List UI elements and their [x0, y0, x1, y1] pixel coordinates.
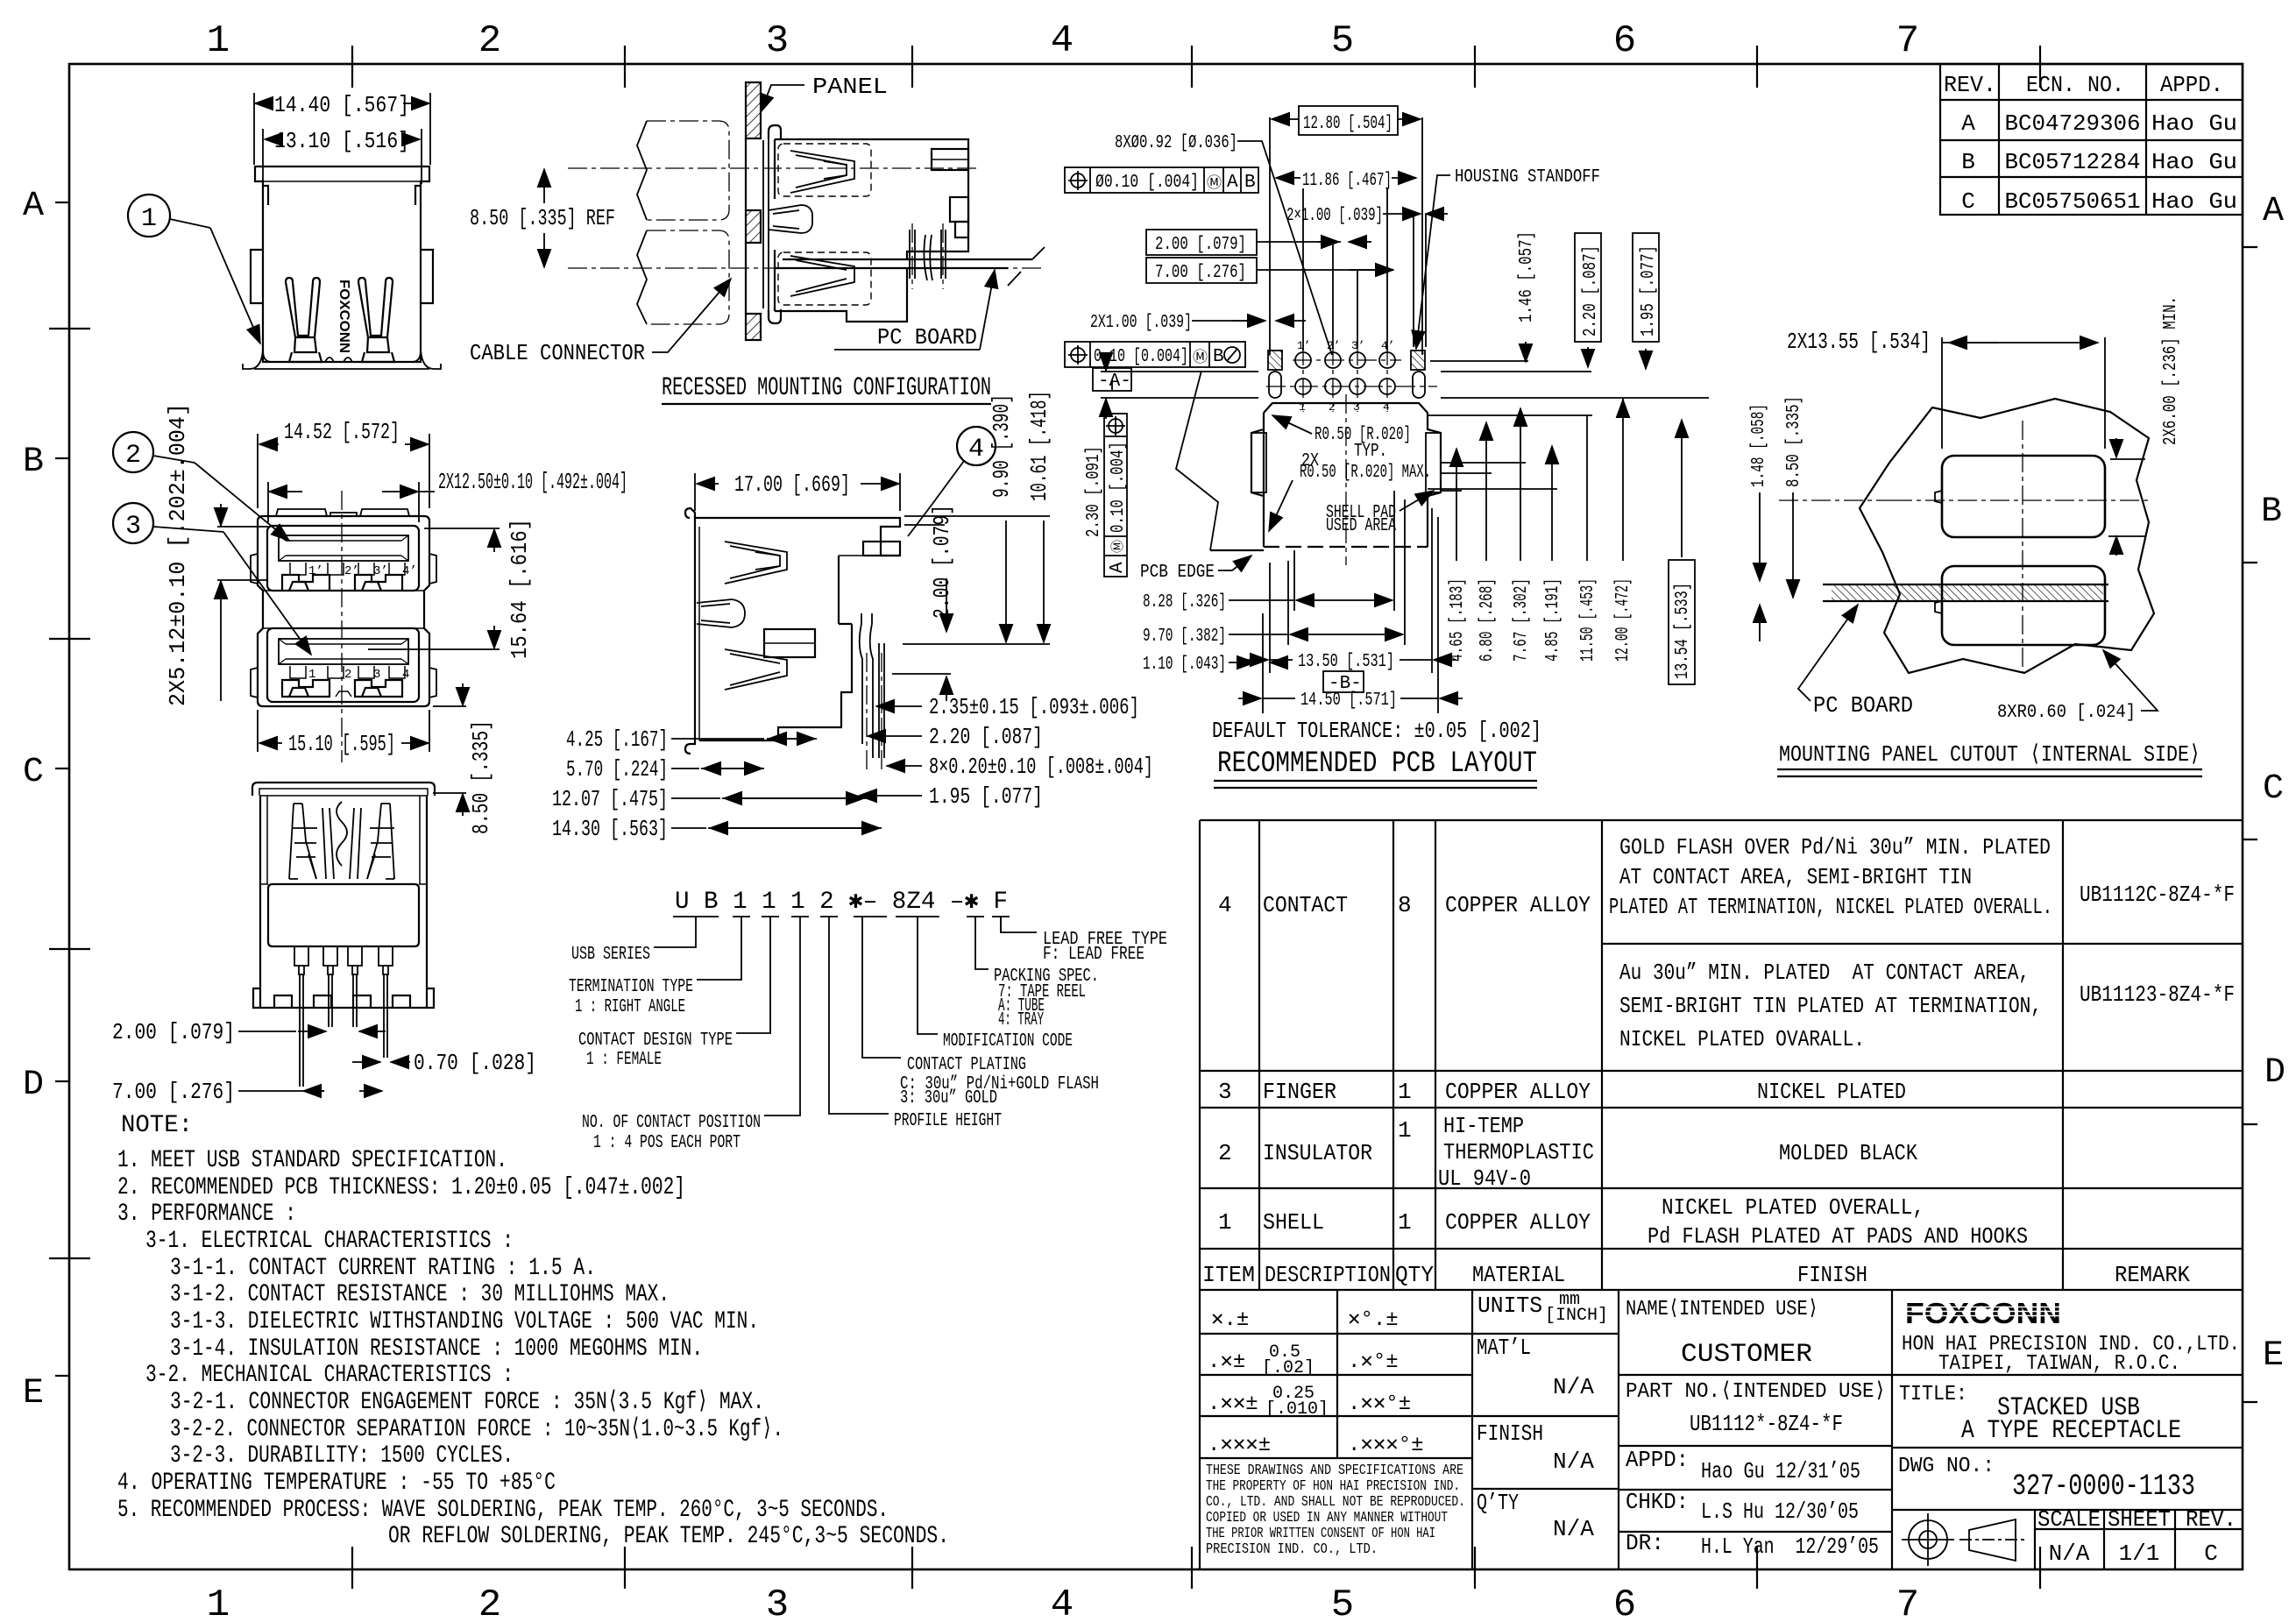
- svg-text:NICKEL PLATED OVARALL.: NICKEL PLATED OVARALL.: [1619, 1026, 1865, 1052]
- hatched square pads: [1268, 351, 1282, 370]
- svg-text:4. OPERATING TEMPERATURE : -55: 4. OPERATING TEMPERATURE : -55 TO +85°C: [117, 1470, 556, 1497]
- svg-text:3: 3: [766, 1583, 789, 1622]
- svg-text:R0.50 [R.020] MAX.: R0.50 [R.020] MAX.: [1300, 463, 1431, 483]
- dimension 12.80 [.504] boxed: [1299, 106, 1398, 135]
- svg-text:CONTACT DESIGN TYPE: CONTACT DESIGN TYPE: [578, 1031, 733, 1051]
- pin bumps row: [294, 946, 393, 974]
- svg-text:TITLE:: TITLE:: [1899, 1383, 1967, 1406]
- svg-text:N/A: N/A: [1553, 1516, 1594, 1542]
- svg-text:TERMINATION TYPE: TERMINATION TYPE: [569, 977, 693, 997]
- svg-text:13.50 [.531]: 13.50 [.531]: [1298, 652, 1394, 672]
- feature control frame 2: [1065, 342, 1245, 367]
- labels R0.50 TYP inside: [1300, 425, 1431, 536]
- svg-text:FOXCONN: FOXCONN: [1905, 1297, 2061, 1329]
- svg-text:D: D: [2264, 1053, 2285, 1093]
- svg-text:3: 30u” GOLD: 3: 30u” GOLD: [900, 1088, 997, 1108]
- svg-text:ECN. NO.: ECN. NO.: [2026, 72, 2124, 98]
- view 1: USB receptacle rear view top-left: [128, 92, 441, 369]
- dimension 2X1.00 [.039] left: [1090, 313, 1306, 333]
- svg-text:4: TRAY: 4: TRAY: [998, 1010, 1044, 1031]
- svg-text:1.10 [.043]: 1.10 [.043]: [1143, 655, 1226, 675]
- svg-text:11.50 [.453]: 11.50 [.453]: [1578, 578, 1598, 662]
- centerlines cutout: [1893, 421, 2149, 673]
- side hooks lower: [251, 668, 436, 698]
- dimension 9.90 [.390] vertical: [989, 394, 1015, 642]
- side view 17.00: [552, 391, 1153, 842]
- svg-text:Pd FLASH PLATED AT PADS AND HO: Pd FLASH PLATED AT PADS AND HOOKS: [1648, 1223, 2028, 1250]
- svg-text:3-1-1. CONTACT CURRENT RATING: 3-1-1. CONTACT CURRENT RATING : 1.5 A.: [170, 1255, 596, 1282]
- view 1 spring contact right: [358, 278, 394, 362]
- svg-text:327-0000-1133: 327-0000-1133: [2012, 1470, 2195, 1504]
- centerlines pcb layout: [1345, 394, 1347, 565]
- svg-text:5.70 [.224]: 5.70 [.224]: [566, 756, 668, 783]
- callout 1 balloon: [128, 195, 260, 344]
- svg-text:5: 5: [1331, 19, 1354, 63]
- svg-text:B: B: [1213, 347, 1224, 367]
- svg-text:2X13.55 [.534]: 2X13.55 [.534]: [1787, 329, 1931, 355]
- svg-text:MOUNTING PANEL CUTOUT ⟨INTERNA: MOUNTING PANEL CUTOUT ⟨INTERNAL SIDE⟩: [1779, 741, 2200, 768]
- stadium slot pads: [1269, 372, 1281, 398]
- svg-text:INSULATOR: INSULATOR: [1263, 1140, 1372, 1166]
- svg-text:C: C: [2204, 1541, 2218, 1567]
- svg-text:Hao Gu 12/31’05: Hao Gu 12/31’05: [1701, 1458, 1860, 1484]
- pin labels upper: [308, 564, 417, 578]
- svg-text:AT CONTACT AREA, SEMI-BRIGHT T: AT CONTACT AREA, SEMI-BRIGHT TIN: [1619, 864, 1972, 890]
- svg-text:FINISH: FINISH: [1477, 1420, 1543, 1447]
- svg-text:REV.: REV.: [2186, 1506, 2236, 1533]
- svg-text:8×0.20±0.10 [.008±.004]: 8×0.20±0.10 [.008±.004]: [929, 754, 1153, 780]
- svg-text:B: B: [1244, 173, 1256, 193]
- svg-text:MAT’L: MAT’L: [1477, 1335, 1531, 1361]
- svg-text:A: A: [23, 187, 44, 226]
- view 1 body outline: [243, 166, 441, 369]
- terminal pins: [910, 223, 946, 289]
- FOXCONN logo: [1905, 1297, 2061, 1329]
- dimension 0.70 [.028]: [352, 1050, 536, 1076]
- dimension 9.70 [.382]: [1143, 499, 1405, 647]
- callout 3 balloon: [113, 503, 311, 655]
- inner block: [764, 629, 815, 657]
- dimension 14.40 [.567]: [254, 92, 430, 165]
- svg-text:1: 1: [141, 204, 157, 234]
- svg-text:1 : 4 POS EACH PORT: 1 : 4 POS EACH PORT: [593, 1133, 741, 1153]
- svg-text:APPD.: APPD.: [2160, 72, 2223, 98]
- svg-text:C: C: [1961, 188, 1975, 215]
- svg-text:12.07 [.475]: 12.07 [.475]: [552, 786, 668, 812]
- svg-text:1 : FEMALE: 1 : FEMALE: [586, 1050, 662, 1070]
- svg-text:2: 2: [478, 19, 501, 63]
- recommended PCB layout view: [1065, 106, 1709, 788]
- svg-text:B: B: [2261, 492, 2282, 532]
- dimension 2X 13.55 [.534]: [1787, 329, 2105, 449]
- svg-text:1.95 [.077]: 1.95 [.077]: [1639, 245, 1659, 336]
- svg-text:Ⓜ: Ⓜ: [1207, 174, 1222, 193]
- svg-text:Hao Gu: Hao Gu: [2151, 188, 2237, 215]
- dimension 4.25 [.167]: [566, 726, 817, 753]
- pad labels 1'-4': [1297, 339, 1395, 352]
- svg-text:3-2-1. CONNECTOR ENGAGEMENT FO: 3-2-1. CONNECTOR ENGAGEMENT FORCE : 35N⟨…: [170, 1389, 764, 1416]
- vertical centerline front view: [341, 491, 343, 762]
- svg-text:THESE DRAWINGS AND SPECIFICATI: THESE DRAWINGS AND SPECIFICATIONS ARE: [1206, 1462, 1463, 1478]
- svg-text:7: 7: [1896, 19, 1919, 63]
- svg-text:B: B: [23, 443, 44, 482]
- svg-text:2: 2: [478, 1583, 501, 1622]
- zone numbers top: [207, 19, 1919, 63]
- svg-text:2.00 [.079]: 2.00 [.079]: [929, 505, 955, 619]
- REV table top-right: [1940, 64, 2243, 215]
- svg-text:2X5.12±0.10 [.202±.004]: 2X5.12±0.10 [.202±.004]: [165, 403, 191, 706]
- svg-text:14.50 [.571]: 14.50 [.571]: [1300, 691, 1397, 711]
- mid band: [260, 884, 427, 946]
- svg-text:BC05712284: BC05712284: [2005, 149, 2141, 175]
- svg-text:9.70 [.382]: 9.70 [.382]: [1143, 627, 1226, 647]
- zone ticks right: [2243, 247, 2257, 1402]
- svg-text:.✕°±: .✕°±: [1348, 1350, 1399, 1374]
- reference lines right of side view: [903, 504, 1050, 644]
- svg-text:PLATED AT TERMINATION, NICKEL: PLATED AT TERMINATION, NICKEL PLATED OVE…: [1609, 894, 2052, 920]
- svg-text:2.35±0.15 [.093±.006]: 2.35±0.15 [.093±.006]: [929, 694, 1139, 720]
- svg-text:D: D: [23, 1066, 44, 1105]
- svg-text:B: B: [1961, 149, 1975, 175]
- svg-text:Au 30u” MIN. PLATED AT CONTAC: Au 30u” MIN. PLATED AT CONTACT AREA,: [1619, 960, 2030, 986]
- svg-text:L.S Hu 12/30’05: L.S Hu 12/30’05: [1701, 1498, 1859, 1525]
- svg-text:8.50 [.335]: 8.50 [.335]: [1784, 396, 1804, 487]
- svg-text:8.50 [.335]: 8.50 [.335]: [468, 720, 494, 834]
- dimension 2X12.50: [268, 469, 627, 522]
- svg-text:8: 8: [1398, 892, 1412, 918]
- svg-text:U B 1 1 1 2 ✱– 8Z4 –✱ F: U B 1 1 1 2 ✱– 8Z4 –✱ F: [675, 889, 1008, 916]
- right vertical dims 1.46 2.20 1.95: [1517, 231, 1537, 362]
- svg-text:3. PERFORMANCE :: 3. PERFORMANCE :: [117, 1201, 296, 1228]
- pins side view: [860, 613, 884, 771]
- svg-text:3-2-2. CONNECTOR SEPARATION FO: 3-2-2. CONNECTOR SEPARATION FORCE : 10~3…: [170, 1416, 783, 1443]
- cable connector break line lower: [637, 230, 647, 324]
- svg-text:UB1112C-8Z4-*F: UB1112C-8Z4-*F: [2080, 882, 2235, 908]
- dimension 2.20: [868, 724, 1043, 750]
- upper port opening: [267, 526, 419, 591]
- svg-text:2’: 2’: [344, 564, 359, 578]
- svg-text:2X1.00 [.039]: 2X1.00 [.039]: [1090, 313, 1192, 333]
- dimension 2X6.00 [.236] MIN vertical: [2108, 296, 2181, 556]
- svg-text:6: 6: [1613, 19, 1636, 63]
- svg-text:3: 3: [125, 512, 141, 542]
- dimension 2.00 [.079] boxed: [1146, 230, 1371, 255]
- callout 4 balloon: [932, 427, 996, 504]
- svg-text:PANEL: PANEL: [812, 74, 888, 100]
- svg-text:PART NO.⟨INTENDED USE⟩: PART NO.⟨INTENDED USE⟩: [1626, 1380, 1886, 1404]
- svg-text:4: 4: [1218, 892, 1232, 918]
- svg-text:2.20 [.087]: 2.20 [.087]: [1581, 245, 1601, 336]
- svg-text:6.80 [.268]: 6.80 [.268]: [1478, 578, 1498, 662]
- pcb edge cut line: [1176, 371, 1264, 550]
- dimension 8x0.20: [887, 754, 1153, 780]
- PC board lines: [775, 247, 1045, 286]
- zone letters right: [2261, 192, 2285, 1376]
- svg-text:2: 2: [344, 668, 351, 682]
- svg-text:SCALE: SCALE: [2037, 1506, 2101, 1533]
- svg-text:4: 4: [1051, 19, 1074, 63]
- svg-text:[.02]: [.02]: [1262, 1358, 1315, 1378]
- dimension 8.28 [.326]: [1143, 491, 1394, 613]
- svg-text:0.70 [.028]: 0.70 [.028]: [414, 1050, 536, 1076]
- svg-text:1.95 [.077]: 1.95 [.077]: [929, 783, 1043, 810]
- svg-text:10.61 [.418]: 10.61 [.418]: [1026, 391, 1052, 501]
- svg-text:GOLD FLASH OVER Pd/Ni 30u” MIN: GOLD FLASH OVER Pd/Ni 30u” MIN. PLATED: [1619, 834, 2051, 861]
- svg-text:SEMI-BRIGHT TIN PLATED AT TERM: SEMI-BRIGHT TIN PLATED AT TERMINATION,: [1619, 993, 2042, 1019]
- R0.50 leader lines: [1269, 415, 1434, 531]
- svg-text:8.28 [.326]: 8.28 [.326]: [1143, 592, 1226, 613]
- dimension 12.07 [.475]: [552, 786, 866, 812]
- svg-text:1’: 1’: [308, 564, 323, 578]
- feature control frame 1: [1065, 167, 1258, 193]
- svg-text:2X12.50±0.10 [.492±.004]: 2X12.50±0.10 [.492±.004]: [438, 469, 627, 495]
- lower port opening: [267, 628, 419, 702]
- svg-text:9.90 [.390]: 9.90 [.390]: [989, 394, 1015, 498]
- svg-text:COPPER ALLOY: COPPER ALLOY: [1445, 1079, 1591, 1105]
- svg-text:4: 4: [1051, 1583, 1074, 1622]
- dimension 13.10 [.516]: [263, 128, 422, 184]
- middle latch side: [697, 599, 745, 627]
- side hooks upper: [251, 554, 436, 584]
- svg-text:NOTE:: NOTE:: [121, 1112, 193, 1139]
- svg-text:BC05750651: BC05750651: [2005, 188, 2141, 215]
- svg-text:COPPER ALLOY: COPPER ALLOY: [1445, 892, 1591, 918]
- zone numbers bottom: [207, 1583, 1919, 1622]
- side view outline: [685, 508, 900, 754]
- connector outline on pcb: [1251, 403, 1441, 547]
- svg-text:.✕✕°±: .✕✕°±: [1348, 1392, 1411, 1416]
- svg-text:4: 4: [968, 435, 984, 464]
- svg-text:3-2. MECHANICAL CHARACTERISTIC: 3-2. MECHANICAL CHARACTERISTICS :: [145, 1362, 514, 1389]
- cable connector dash-dot outline lower: [647, 230, 729, 324]
- svg-text:12.00 [.472]: 12.00 [.472]: [1613, 578, 1633, 662]
- interior A contacts: [289, 804, 394, 879]
- centerline upper port: [568, 167, 978, 169]
- legend callout lines: [654, 917, 1037, 1116]
- bottom-left rear/bottom view: [112, 783, 536, 1105]
- upper port dashed outline: [778, 144, 871, 196]
- svg-text:TAIPEI, TAIWAN, R.O.C.: TAIPEI, TAIWAN, R.O.C.: [1938, 1352, 2180, 1376]
- svg-text:2.20 [.087]: 2.20 [.087]: [929, 724, 1043, 750]
- svg-text:TYP.: TYP.: [1354, 442, 1387, 462]
- callout 2 balloon: [113, 432, 289, 541]
- svg-text:-A-: -A-: [1098, 372, 1131, 392]
- svg-text:Q’TY: Q’TY: [1477, 1490, 1519, 1516]
- svg-text:CUSTOMER: CUSTOMER: [1681, 1340, 1812, 1370]
- dimension 14.50 [.571]: [1238, 517, 1463, 713]
- bottom bumps between forks: [325, 358, 352, 362]
- svg-text:13.10 [.516]: 13.10 [.516]: [274, 128, 409, 154]
- right side tab: [421, 250, 433, 303]
- svg-text:USED AREA: USED AREA: [1326, 516, 1396, 536]
- svg-text:[.010]: [.010]: [1265, 1399, 1329, 1420]
- svg-text:COPPER ALLOY: COPPER ALLOY: [1445, 1209, 1591, 1236]
- row 1 pad circles: [1295, 352, 1311, 368]
- svg-text:CONTACT: CONTACT: [1263, 892, 1348, 918]
- svg-text:1: 1: [1398, 1079, 1412, 1105]
- svg-text:FINISH: FINISH: [1797, 1262, 1867, 1288]
- label 8XR0.60: [1997, 650, 2158, 723]
- pc board hatched strip: [1823, 584, 2108, 601]
- view 1 spring contact left: [286, 278, 322, 362]
- svg-text:3-2-3. DURABILITY: 1500 CYCLES: 3-2-3. DURABILITY: 1500 CYCLES.: [170, 1442, 514, 1470]
- svg-text:✕°.±: ✕°.±: [1348, 1308, 1399, 1332]
- svg-text:Ø0.10 [.004]: Ø0.10 [.004]: [1095, 173, 1199, 193]
- svg-text:4.65 [.183]: 4.65 [.183]: [1448, 578, 1468, 662]
- top edge bumps: [276, 509, 409, 516]
- svg-text:4.25 [.167]: 4.25 [.167]: [566, 726, 668, 753]
- svg-text:0.10 [0.004]: 0.10 [0.004]: [1094, 347, 1188, 367]
- part number legend UB1112*-8Z4-*F: [569, 889, 1167, 1153]
- dimension 8.50 [.335] vertical: [1779, 396, 1893, 598]
- cable connector dash-dot outline upper: [647, 121, 729, 220]
- third angle projection symbol: [1902, 1513, 2026, 1566]
- svg-text:7.00 [.276]: 7.00 [.276]: [112, 1079, 235, 1105]
- svg-text:OR REFLOW SOLDERING, PEAK TEMP: OR REFLOW SOLDERING, PEAK TEMP. 245°C,3~…: [388, 1523, 949, 1550]
- svg-text:14.40 [.567]: 14.40 [.567]: [274, 92, 409, 118]
- svg-text:UB1112*-8Z4-*F: UB1112*-8Z4-*F: [1690, 1411, 1843, 1437]
- dimension 11.86 [.467]: [1276, 171, 1416, 351]
- mounting panel cutout view: [1749, 296, 2202, 776]
- svg-text:7: 7: [1896, 1583, 1919, 1622]
- title RECESSED MOUNTING CONFIGURATION: [662, 373, 991, 404]
- svg-text:ITEM: ITEM: [1202, 1262, 1255, 1288]
- svg-text:3: 3: [766, 19, 789, 63]
- svg-text:RECESSED MOUNTING CONFIGURATIO: RECESSED MOUNTING CONFIGURATION: [662, 373, 991, 403]
- left side tab: [251, 250, 263, 303]
- svg-text:1: 1: [1398, 1209, 1412, 1236]
- connector mounting flange: [763, 125, 781, 323]
- dimension 15.64 vertical: [368, 519, 533, 659]
- title block tolerance table: [1200, 1290, 1619, 1569]
- svg-text:1.46 [.057]: 1.46 [.057]: [1517, 231, 1537, 322]
- svg-text:6: 6: [1613, 1583, 1636, 1622]
- dimension 2x1.00 [.039] top: [1286, 206, 1448, 226]
- svg-text:8.50 [.335] REF: 8.50 [.335] REF: [470, 205, 615, 231]
- right side blocks: [932, 149, 968, 237]
- dimension 5.70 [.224]: [566, 756, 764, 783]
- svg-text:2×1.00 [.039]: 2×1.00 [.039]: [1286, 206, 1383, 226]
- svg-text:2.00 [.079]: 2.00 [.079]: [1155, 235, 1246, 255]
- middle latch finger: [769, 205, 812, 233]
- svg-text:APPD:: APPD:: [1626, 1447, 1689, 1473]
- svg-text:1: 1: [207, 19, 230, 63]
- dimension 7.00 [.276] boxed: [1146, 258, 1393, 283]
- svg-text:12.80 [.504]: 12.80 [.504]: [1303, 114, 1392, 134]
- svg-text:.✕±: .✕±: [1208, 1350, 1245, 1374]
- label CABLE CONNECTOR: [470, 279, 731, 366]
- top lip with hooks: [252, 783, 435, 796]
- svg-text:2.00 [.079]: 2.00 [.079]: [112, 1019, 235, 1045]
- lower cutout rounded rect: [1942, 566, 2105, 645]
- svg-text:SHELL: SHELL: [1263, 1209, 1324, 1236]
- svg-text:CHKD:: CHKD:: [1626, 1489, 1689, 1515]
- zone letters left: [23, 187, 44, 1413]
- svg-text:A: A: [2263, 192, 2284, 231]
- front view stacked USB (views 2,3): [113, 403, 627, 834]
- lower spring side: [725, 649, 787, 690]
- svg-text:N/A: N/A: [2049, 1541, 2090, 1567]
- svg-text:14.52 [.572]: 14.52 [.572]: [284, 419, 400, 445]
- svg-text:3-1. ELECTRICAL CHARACTERISTIC: 3-1. ELECTRICAL CHARACTERISTICS :: [145, 1228, 514, 1255]
- dimension 17.00 [.669]: [695, 471, 900, 511]
- upper spring contact: [790, 151, 854, 193]
- svg-text:HI-TEMP: HI-TEMP: [1443, 1113, 1524, 1139]
- svg-text:NAME⟨INTENDED USE⟩: NAME⟨INTENDED USE⟩: [1626, 1298, 1818, 1321]
- dimension 7.00 [.276]: [112, 1079, 382, 1105]
- label PCB EDGE: [1140, 556, 1251, 583]
- svg-text:2X6.00 [.236] MIN.: 2X6.00 [.236] MIN.: [2161, 296, 2181, 445]
- zone ticks left: [49, 202, 90, 1376]
- dimension 1.95: [859, 783, 1043, 810]
- svg-text:4.85 [.191]: 4.85 [.191]: [1543, 578, 1563, 662]
- svg-text:Hao Gu: Hao Gu: [2151, 110, 2237, 137]
- svg-text:CABLE CONNECTOR: CABLE CONNECTOR: [470, 340, 645, 366]
- dimension 2.00 [.079] pins: [112, 1019, 386, 1045]
- dimension 1.10 [.043]: [1143, 655, 1282, 675]
- svg-text:DESCRIPTION: DESCRIPTION: [1265, 1262, 1391, 1288]
- pin labels lower: [308, 668, 409, 682]
- dimension 10.61 [.418] vertical: [1026, 391, 1052, 642]
- dimension 2X5.12 vertical: [165, 403, 268, 706]
- svg-text:DR:: DR:: [1626, 1530, 1664, 1556]
- title RECOMMENDED PCB LAYOUT: [1214, 747, 1537, 788]
- NOTE text block: [117, 1112, 949, 1550]
- svg-text:1: 1: [207, 1583, 230, 1622]
- svg-text:REMARK: REMARK: [2115, 1262, 2190, 1288]
- housing standoff leaders: [0, 0, 1, 1]
- label PC BOARD: [834, 270, 995, 351]
- svg-text:Ⓜ: Ⓜ: [1110, 540, 1126, 553]
- interior S-curve center: [337, 802, 347, 866]
- small top side notches: [263, 186, 268, 205]
- svg-text:A: A: [1227, 173, 1238, 193]
- connector shell side outline: [775, 139, 968, 322]
- svg-text:.✕✕✕°±: .✕✕✕°±: [1348, 1434, 1424, 1457]
- bottom base plate with curled feet: [263, 351, 421, 362]
- recessed mounting configuration view: [470, 74, 1045, 404]
- svg-text:7.00 [.276]: 7.00 [.276]: [1155, 263, 1246, 283]
- label PANEL: [761, 74, 888, 112]
- svg-text:UNITS: UNITS: [1478, 1293, 1542, 1319]
- svg-text:QTY: QTY: [1395, 1262, 1434, 1288]
- dimension 8.50 [.335] vertical between views: [433, 684, 494, 834]
- dimension 14.52 [.572]: [258, 419, 429, 508]
- svg-text:1/1: 1/1: [2119, 1541, 2160, 1567]
- svg-text:13.54 [.533]: 13.54 [.533]: [1673, 583, 1693, 679]
- svg-text:5: 5: [1331, 1583, 1354, 1622]
- irregular panel outline: [1860, 399, 2154, 673]
- svg-text:15.64 [.616]: 15.64 [.616]: [507, 519, 533, 659]
- svg-text:4: 4: [402, 668, 409, 682]
- title MOUNTING PANEL CUTOUT: [1777, 741, 2202, 776]
- svg-text:E: E: [23, 1374, 44, 1413]
- svg-text:1 : RIGHT ANGLE: 1 : RIGHT ANGLE: [575, 997, 685, 1017]
- svg-text:USB SERIES: USB SERIES: [571, 945, 650, 965]
- svg-text:MODIFICATION CODE: MODIFICATION CODE: [943, 1031, 1073, 1052]
- svg-text:.✕✕✕±: .✕✕✕±: [1208, 1434, 1271, 1457]
- svg-text:PC BOARD: PC BOARD: [1813, 692, 1913, 719]
- dimension 2.00 [.079] vertical side: [892, 505, 955, 701]
- label 8X 0.92: [1115, 133, 1332, 355]
- svg-text:THE PRIOR WRITTEN CONSENT OF H: THE PRIOR WRITTEN CONSENT OF HON HAI: [1206, 1525, 1435, 1541]
- right vertical dims column: [1448, 449, 1468, 662]
- dimension 15.10 [.595]: [258, 710, 429, 757]
- svg-text:Ⓜ: Ⓜ: [1193, 349, 1208, 367]
- svg-text:SHEET: SHEET: [2108, 1506, 2171, 1533]
- svg-text:14.30 [.563]: 14.30 [.563]: [552, 816, 668, 842]
- dimension 1.48 [.058] vertical: [1749, 404, 1769, 641]
